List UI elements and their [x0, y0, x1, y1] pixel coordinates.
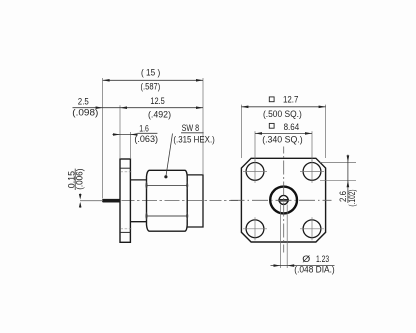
arrow 12.5 left — [120, 106, 127, 109]
dim 2.6 vertical line — [347, 155, 349, 203]
center outer circle (body) — [270, 187, 297, 214]
svg-text:(.315 HEX.): (.315 HEX.) — [173, 134, 214, 144]
arrow 1.23 left (outside) — [274, 264, 281, 267]
pin tab (0.15 thick, protrudes left of flange) — [103, 199, 121, 202]
arrow 8.64 right — [305, 132, 312, 135]
dim 2.5 tail and line — [73, 107, 121, 109]
hole top-right — [303, 163, 321, 181]
svg-text:(.587): (.587) — [141, 82, 161, 92]
arrow 12.7 left — [241, 106, 248, 109]
flange chamfer edge bottom — [120, 231, 130, 233]
SW8 leader dot — [164, 175, 167, 178]
ext lines 2.6 (hole dia) — [320, 162, 356, 180]
svg-text:Ø: Ø — [302, 254, 310, 264]
svg-text:(.048 DIA.): (.048 DIA.) — [294, 264, 334, 274]
hex facet end lens left-top — [146, 182, 147, 188]
dim 0.15 arrows — [79, 193, 81, 197]
hex facet end lens right-top — [187, 182, 188, 188]
ext lines pin dia 1.23 — [281, 205, 288, 269]
ext lines 12.7 — [241, 105, 325, 158]
arrow 1.6 left (outside) — [113, 133, 120, 136]
extension line flange left face — [119, 105, 121, 159]
extension line flange right face — [129, 132, 131, 159]
dim 1.6 line — [112, 134, 137, 136]
arrow 2.5 left (outside, tip at pin-tip ext) — [96, 106, 103, 109]
dim 12.7 line — [241, 106, 325, 108]
step barrel between flange and hex — [130, 180, 146, 222]
hole bottom-left — [246, 220, 264, 238]
arrow (15) left — [103, 79, 110, 82]
svg-text:(.102): (.102) — [347, 189, 357, 206]
flange square with chamfered corners — [241, 158, 325, 242]
square symbol 8.64 — [269, 123, 274, 128]
arrow 2.6 bottom (outside, tip up) — [347, 180, 350, 187]
svg-text:(.492): (.492) — [148, 109, 171, 119]
hex facet line lower — [147, 215, 188, 217]
ext lines 8.64 — [255, 131, 312, 161]
dim 1.23 line — [271, 265, 335, 267]
hole top-left crosshair — [243, 160, 267, 183]
arrow 1.23 right (outside) — [287, 264, 294, 267]
arrow 12.7 right — [319, 106, 326, 109]
pin extension line to 0.15 dim — [80, 200, 103, 202]
svg-text:8.64: 8.64 — [284, 122, 300, 132]
hole bottom-right — [303, 220, 321, 238]
dim 12.5 line — [120, 107, 203, 109]
svg-text:2.5: 2.5 — [78, 97, 89, 107]
hex facet end lens right-bottom — [187, 213, 188, 219]
arrow 12.5 right — [196, 106, 203, 109]
vertical centerline right view — [283, 147, 285, 253]
flange hole hidden line top — [120, 171, 131, 173]
svg-text:( 15 ): ( 15 ) — [141, 68, 160, 78]
fraction bar 0.15 (vertical, rotated) — [74, 169, 76, 190]
flange hole hidden line bottom — [120, 228, 131, 230]
svg-text:12.5: 12.5 — [150, 96, 164, 106]
hex facet end lens left-bottom — [146, 213, 147, 219]
hole top-right crosshair — [300, 160, 324, 183]
hole bottom-right crosshair — [300, 217, 324, 240]
SW8 leader — [166, 134, 173, 177]
pin flat tab (end-on bar) — [278, 199, 289, 202]
hex nut outline — [147, 170, 188, 231]
arrow (15) right — [196, 79, 203, 82]
svg-text:(.098): (.098) — [72, 108, 98, 118]
flange chamfer edge top — [120, 167, 130, 169]
square symbol 12.7 — [269, 97, 274, 102]
svg-text:1.6: 1.6 — [139, 123, 149, 133]
hex facet line upper — [147, 184, 188, 186]
right cylinder (coupling end) — [187, 175, 203, 227]
arrow 1.6 right (outside) — [130, 133, 137, 136]
SW8 underline bar — [181, 132, 204, 134]
flange (side) — [120, 159, 130, 242]
arrow 8.64 left — [255, 132, 262, 135]
horizontal centerline right view — [231, 199, 332, 201]
extension line right end — [202, 78, 204, 175]
svg-text:(.063): (.063) — [134, 134, 158, 144]
center inner circle — [279, 195, 288, 204]
svg-text:SW 8: SW 8 — [182, 123, 200, 133]
svg-text:1.23: 1.23 — [316, 254, 329, 264]
fraction bar 1.6 — [137, 132, 157, 134]
arrow 2.6 top (outside, tip down) — [347, 155, 350, 162]
hole bottom-left crosshair — [243, 217, 267, 240]
dim (15) line — [103, 79, 203, 81]
svg-text:(.006): (.006) — [74, 169, 84, 190]
svg-text:(.340 SQ.): (.340 SQ.) — [262, 135, 303, 145]
centerline (side view axis) — [122, 200, 239, 202]
hole top-left — [246, 163, 264, 181]
extension line pin tip — [102, 78, 104, 199]
dim 8.64 line — [255, 132, 312, 134]
svg-text:(.500 SQ.): (.500 SQ.) — [263, 109, 302, 119]
svg-text:12.7: 12.7 — [283, 95, 298, 105]
